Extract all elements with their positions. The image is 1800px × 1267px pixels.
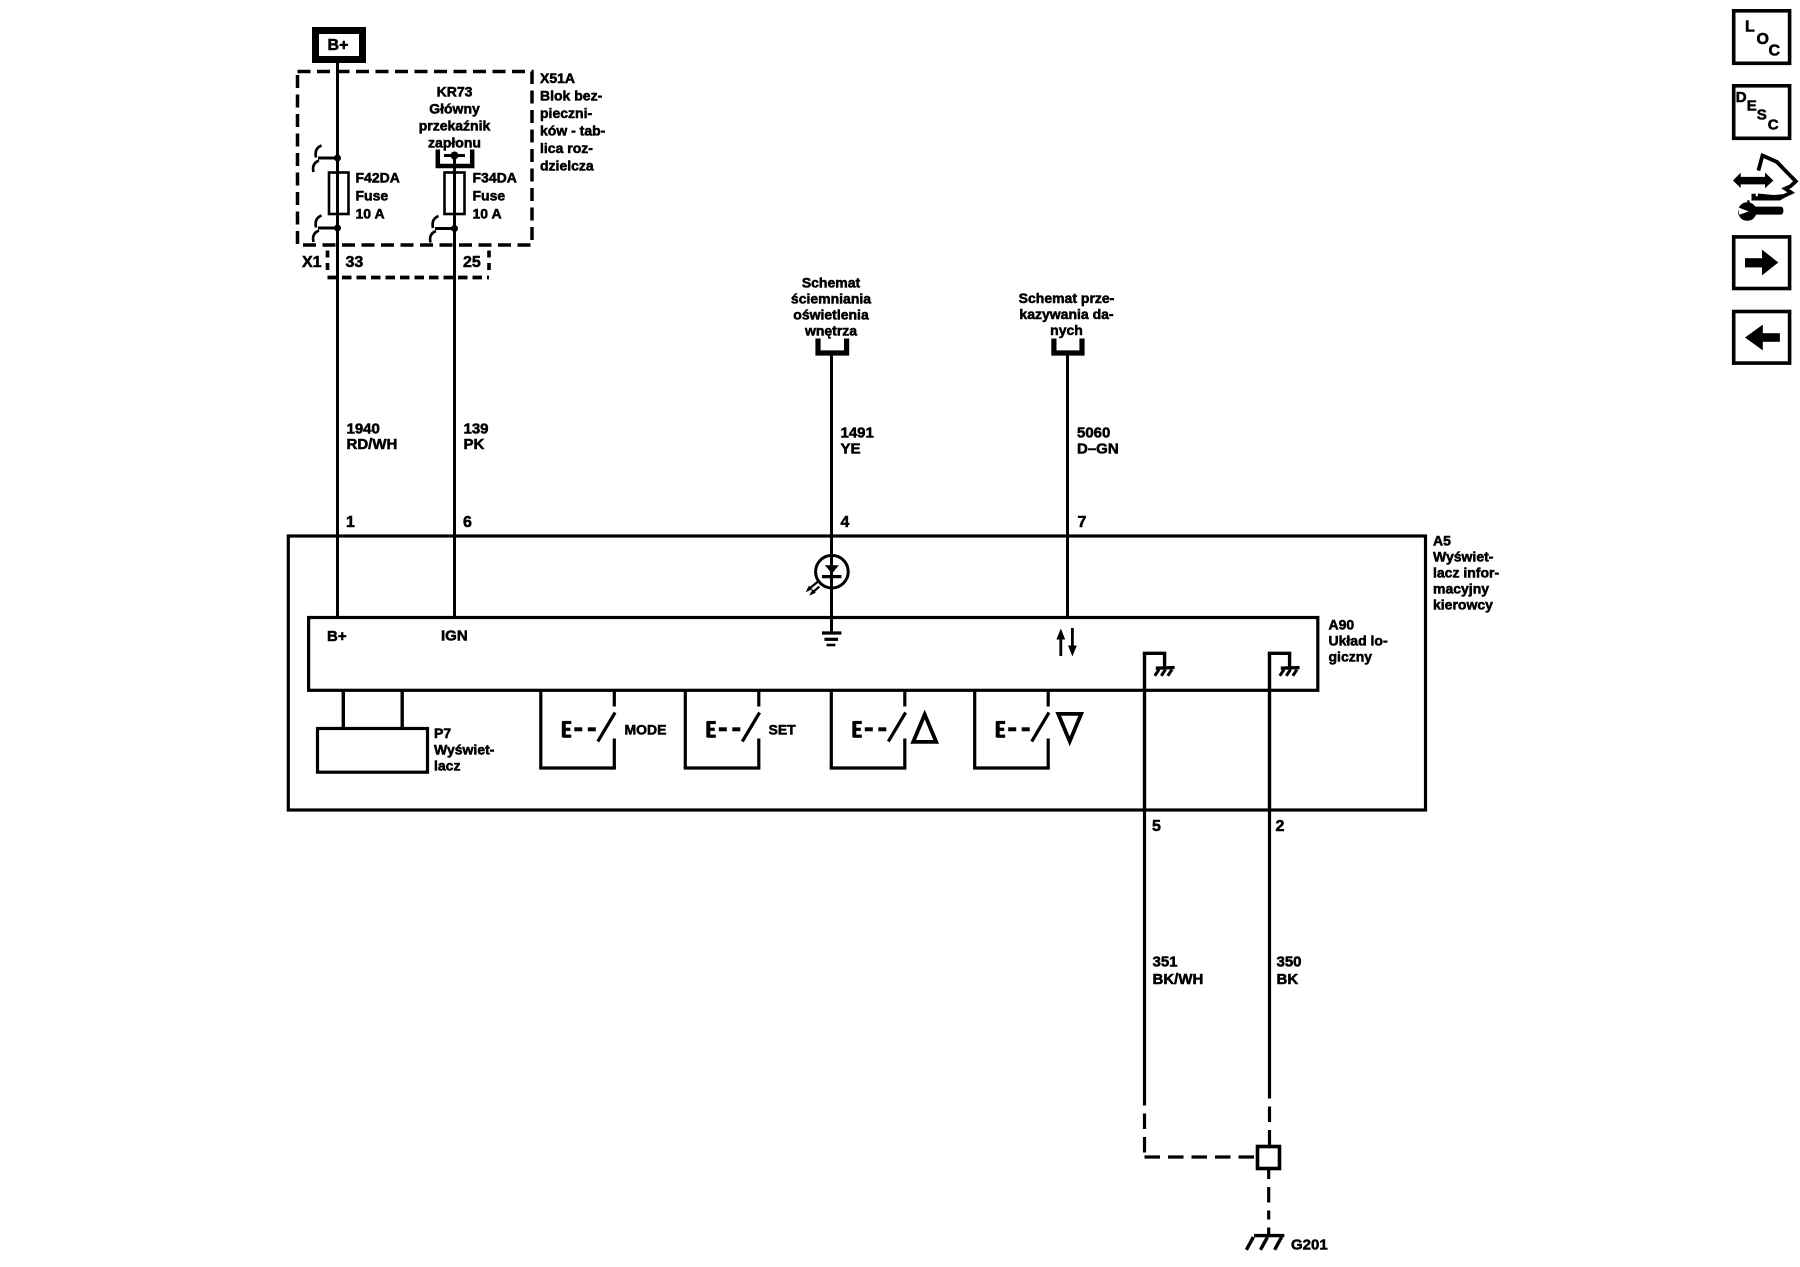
chassis ground glyph right <box>1280 668 1300 676</box>
power symbol B+ <box>316 31 363 60</box>
switch MODE pushbutton <box>539 690 616 768</box>
terminal clip below fuse F42DA <box>313 216 341 243</box>
wire splice to ground dashed <box>1267 1170 1270 1235</box>
svg-text:P7: P7 <box>434 725 451 741</box>
off-page connector bracket (dimming) <box>818 339 847 354</box>
label F42DA <box>356 170 400 222</box>
pin 1 <box>346 514 355 531</box>
svg-text:KR73: KR73 <box>437 84 473 100</box>
svg-text:D: D <box>1736 89 1747 106</box>
svg-text:Układ lo-: Układ lo- <box>1329 633 1388 649</box>
svg-text:1940: 1940 <box>347 421 380 438</box>
svg-text:YE: YE <box>841 441 861 458</box>
svg-text:C: C <box>1769 43 1781 60</box>
ground hook left (pin 5 path) <box>1145 653 1165 667</box>
connector X1 outline <box>328 251 490 278</box>
display P7 box <box>318 729 428 773</box>
wire pin 1 inside A5 <box>336 536 339 618</box>
svg-text:lacz: lacz <box>434 758 460 774</box>
svg-text:G201: G201 <box>1291 1237 1328 1254</box>
svg-text:BK/WH: BK/WH <box>1153 971 1204 988</box>
wire label 1491 YE <box>841 425 874 458</box>
svg-text:RD/WH: RD/WH <box>347 436 398 453</box>
label X1 <box>302 254 322 271</box>
svg-text:SET: SET <box>769 722 797 738</box>
svg-text:Blok bez-: Blok bez- <box>540 88 603 104</box>
wire label 351 BK/WH <box>1153 954 1204 989</box>
pin 5 <box>1152 818 1161 835</box>
label F34DA <box>473 170 517 222</box>
node B+ inside A90 <box>327 628 347 645</box>
wire 350 solid part <box>1268 810 1271 1083</box>
data arrows up/down <box>1056 628 1076 657</box>
label X51A <box>540 70 606 174</box>
svg-text:Schemat: Schemat <box>802 275 861 291</box>
pin 6 <box>463 514 472 531</box>
ground symbol (internal) <box>822 633 841 645</box>
svg-text:Wyświet-: Wyświet- <box>434 741 495 757</box>
triangle up symbol <box>913 715 936 742</box>
svg-text:L: L <box>1745 19 1755 36</box>
svg-text:Główny: Główny <box>429 101 480 117</box>
label G201 <box>1291 1237 1328 1254</box>
ground hook right (pin 2 path) <box>1270 653 1290 667</box>
svg-text:Schemat prze-: Schemat prze- <box>1019 290 1115 306</box>
svg-text:C: C <box>1768 117 1779 134</box>
svg-text:O: O <box>1757 31 1769 48</box>
nav icon LOC box <box>1734 11 1790 64</box>
label Schemat przekazywania danych <box>1019 290 1115 338</box>
svg-text:macyjny: macyjny <box>1433 581 1489 597</box>
svg-text:IGN: IGN <box>441 628 468 645</box>
svg-text:Wyświet-: Wyświet- <box>1433 549 1494 565</box>
svg-text:F34DA: F34DA <box>473 170 517 186</box>
svg-text:25: 25 <box>463 254 481 271</box>
wire label 5060 D-GN <box>1077 425 1119 458</box>
switch UP pushbutton <box>830 690 907 768</box>
wire 351 dashed part <box>1145 1090 1257 1157</box>
label A90 <box>1329 617 1388 665</box>
pin 2 <box>1276 818 1285 835</box>
wire B+ feed (circuit 1940) <box>336 63 339 536</box>
fuse F34DA <box>445 173 465 215</box>
splice S-box <box>1258 1147 1280 1169</box>
svg-text:1491: 1491 <box>841 425 874 442</box>
terminal clip above fuse F42DA <box>313 146 341 173</box>
svg-text:D–GN: D–GN <box>1077 441 1119 458</box>
off-page connector bracket (data) <box>1054 339 1082 354</box>
label A5 <box>1433 533 1499 613</box>
wire label 350 BK <box>1277 954 1302 989</box>
wires A90 to display P7 <box>343 690 402 728</box>
pin 33 <box>346 254 364 271</box>
nav icon DESC box <box>1734 86 1790 139</box>
svg-text:350: 350 <box>1277 954 1302 971</box>
svg-text:ściemniania: ściemniania <box>791 291 871 307</box>
svg-text:Fuse: Fuse <box>356 188 389 204</box>
svg-text:lica roz-: lica roz- <box>540 140 593 156</box>
fuse F42DA <box>329 173 349 215</box>
wire 351 solid part <box>1143 810 1146 1090</box>
wire pin 6 inside A5 <box>453 536 456 618</box>
svg-text:10 A: 10 A <box>356 206 385 222</box>
wire ground 5 vertical inside A5 <box>1143 653 1146 810</box>
nav icon forward arrow box <box>1734 237 1790 289</box>
svg-text:zapłonu: zapłonu <box>428 135 481 151</box>
svg-text:5060: 5060 <box>1077 425 1110 442</box>
svg-text:oświetlenia: oświetlenia <box>793 307 869 323</box>
module A5 box <box>288 536 1425 810</box>
label Schemat sciemniania oswietlenia wnetrza <box>791 275 871 339</box>
svg-text:X1: X1 <box>302 254 322 271</box>
svg-text:33: 33 <box>346 254 364 271</box>
svg-text:S: S <box>1757 106 1767 123</box>
svg-text:pieczni-: pieczni- <box>540 105 592 121</box>
ground G201 symbol <box>1246 1236 1284 1250</box>
svg-text:139: 139 <box>464 421 489 438</box>
svg-text:ków - tab-: ków - tab- <box>540 123 606 139</box>
pin 25 <box>463 254 481 271</box>
label P7 <box>434 725 495 774</box>
svg-text:kierowcy: kierowcy <box>1433 597 1493 613</box>
chassis ground glyph left <box>1155 668 1175 676</box>
svg-text:E: E <box>1747 97 1757 114</box>
svg-text:351: 351 <box>1153 954 1178 971</box>
svg-text:nych: nych <box>1050 322 1083 338</box>
svg-text:PK: PK <box>464 436 485 453</box>
label SET <box>769 722 797 738</box>
svg-text:X51A: X51A <box>540 70 575 86</box>
wire label 1940 RD/WH <box>347 421 398 454</box>
svg-text:4: 4 <box>841 514 850 531</box>
wire circuit 5060 <box>1066 353 1069 618</box>
svg-text:wnętrza: wnętrza <box>804 323 857 339</box>
svg-text:6: 6 <box>463 514 472 531</box>
svg-text:lacz infor-: lacz infor- <box>1433 565 1499 581</box>
nav icon back arrow box <box>1734 312 1790 364</box>
terminal clip below fuse F34DA <box>430 216 458 243</box>
svg-text:przekaźnik: przekaźnik <box>419 118 491 134</box>
label MODE <box>625 722 667 738</box>
relay KR73 contact cup <box>438 150 472 167</box>
svg-text:BK: BK <box>1277 971 1299 988</box>
svg-text:A5: A5 <box>1433 533 1451 549</box>
svg-text:B+: B+ <box>327 628 347 645</box>
wire circuit 1491 <box>830 353 833 632</box>
svg-text:A90: A90 <box>1329 617 1355 633</box>
svg-text:kazywania da-: kazywania da- <box>1019 306 1113 322</box>
wire ground 2 vertical inside A5 <box>1268 653 1271 810</box>
svg-text:giczny: giczny <box>1329 648 1373 664</box>
svg-text:F42DA: F42DA <box>356 170 400 186</box>
svg-text:7: 7 <box>1078 514 1087 531</box>
node IGN inside A90 <box>441 628 468 645</box>
svg-text:1: 1 <box>346 514 355 531</box>
svg-text:5: 5 <box>1152 818 1161 835</box>
LED indicator <box>806 555 849 595</box>
svg-text:10 A: 10 A <box>473 206 502 222</box>
triangle down symbol <box>1058 714 1081 741</box>
switch SET pushbutton <box>684 690 761 768</box>
logic unit A90 box <box>309 618 1318 691</box>
nav icon double-arrow with wrench <box>1733 156 1796 221</box>
svg-text:B+: B+ <box>328 37 349 54</box>
label KR73 relay <box>419 84 491 151</box>
wire IGN feed (circuit 139) <box>453 156 456 537</box>
svg-text:2: 2 <box>1276 818 1285 835</box>
switch DOWN pushbutton <box>973 690 1050 768</box>
pin 4 <box>841 514 850 531</box>
fuse block X51A dashed box <box>298 72 533 246</box>
pin 7 <box>1078 514 1087 531</box>
wire 350 dashed part <box>1268 1083 1271 1145</box>
wire label 139 PK <box>464 421 489 454</box>
svg-text:MODE: MODE <box>625 722 667 738</box>
svg-text:Fuse: Fuse <box>473 188 506 204</box>
svg-text:dzielcza: dzielcza <box>540 158 594 174</box>
